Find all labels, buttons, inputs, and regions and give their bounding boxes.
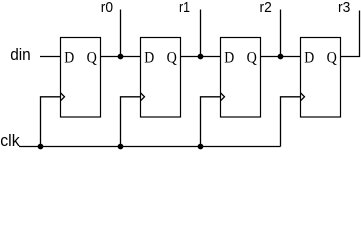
- svg-text:din: din: [10, 46, 31, 64]
- wire r1 tap: [200, 10, 202, 57]
- svg-text:D: D: [64, 49, 74, 66]
- wire U4 Q to r3: [341, 11, 360, 57]
- wire clk bus: [19, 146, 281, 148]
- D flip-flop U4 body: [301, 38, 341, 118]
- junction dot r0: [118, 54, 124, 60]
- wire U3 Q to U4 D: [261, 56, 301, 58]
- svg-text:D: D: [304, 49, 314, 66]
- U1 clock chevron: [61, 93, 65, 101]
- wire din to U1 D input: [40, 56, 61, 58]
- wire clk to U1 clock: [41, 97, 61, 147]
- U3 clock chevron: [221, 93, 225, 101]
- junction dot r2: [278, 54, 284, 60]
- D flip-flop U2 body: [141, 38, 181, 118]
- D flip-flop U3 body: [221, 38, 261, 118]
- svg-text:clk: clk: [0, 132, 20, 150]
- D flip-flop U1 body: [61, 38, 101, 118]
- junction dot clk U2: [118, 144, 124, 150]
- svg-text:r1: r1: [179, 0, 190, 16]
- wire r0 tap: [120, 10, 122, 57]
- wire clk to U2 clock: [121, 97, 141, 147]
- svg-text:r0: r0: [101, 0, 113, 16]
- svg-text:Q: Q: [87, 49, 98, 66]
- svg-text:Q: Q: [247, 49, 258, 66]
- U4 clock chevron: [301, 93, 305, 101]
- svg-text:r3: r3: [338, 0, 350, 16]
- wire clk to U3 clock: [201, 97, 221, 147]
- svg-text:r2: r2: [260, 0, 272, 16]
- wire U2 Q to U3 D: [181, 56, 221, 58]
- junction dot r1: [198, 54, 204, 60]
- wire r2 tap: [280, 10, 282, 57]
- wire U1 Q to U2 D: [101, 56, 141, 58]
- svg-text:D: D: [224, 49, 234, 66]
- wire clk to U4 clock: [281, 97, 301, 147]
- svg-text:Q: Q: [167, 49, 178, 66]
- U2 clock chevron: [141, 93, 145, 101]
- junction dot clk U3: [198, 144, 204, 150]
- svg-text:Q: Q: [327, 49, 338, 66]
- svg-text:D: D: [144, 49, 154, 66]
- junction dot clk U1: [38, 144, 44, 150]
